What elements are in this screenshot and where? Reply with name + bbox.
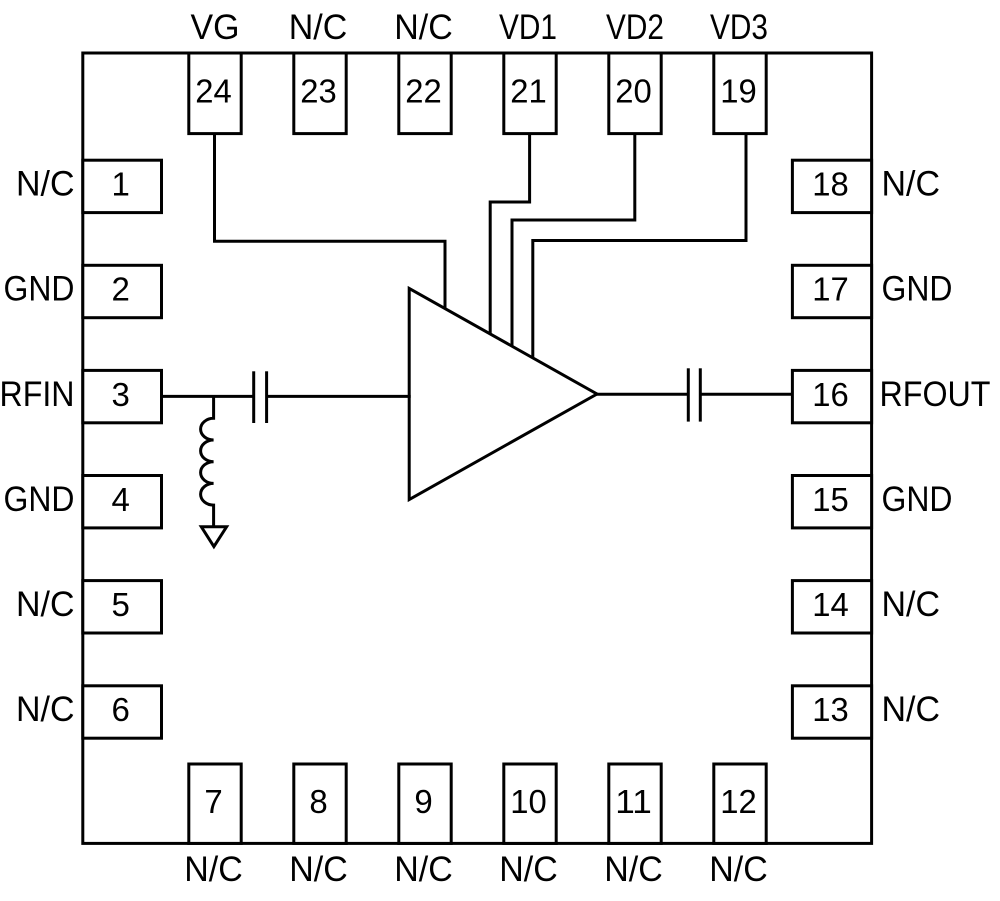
wire: amplifier output to capacitor C2 (596, 393, 688, 396)
pin 2 (83, 265, 162, 317)
svg-text:N/C: N/C (16, 165, 75, 204)
svg-text:GND: GND (4, 270, 75, 309)
svg-text:3: 3 (112, 376, 130, 413)
wire: C1 to amplifier input (267, 395, 411, 398)
pin 4 (83, 476, 162, 528)
pin 20 (609, 53, 661, 134)
svg-text:N/C: N/C (394, 8, 453, 47)
pin 5 (83, 581, 162, 633)
svg-text:10: 10 (510, 783, 547, 820)
svg-text:22: 22 (405, 73, 442, 110)
pin 23 (294, 53, 346, 134)
wire: RFIN pin 3 to capacitor C1 (162, 395, 254, 398)
svg-text:VG: VG (191, 8, 240, 47)
svg-text:15: 15 (812, 481, 849, 518)
svg-text:N/C: N/C (289, 8, 348, 47)
svg-text:9: 9 (414, 783, 432, 820)
svg-text:24: 24 (195, 73, 232, 110)
pin 9 (399, 764, 451, 843)
svg-text:6: 6 (112, 691, 130, 728)
pin 21 (504, 53, 556, 134)
pin 16 (792, 370, 871, 422)
svg-text:VD1: VD1 (499, 8, 557, 47)
svg-text:VD2: VD2 (606, 8, 664, 47)
pin 15 (792, 476, 871, 528)
svg-text:1: 1 (112, 166, 130, 203)
svg-text:N/C: N/C (499, 850, 558, 889)
svg-text:GND: GND (882, 480, 953, 519)
pin 1 (83, 160, 162, 212)
svg-text:11: 11 (615, 783, 652, 820)
svg-text:23: 23 (300, 73, 337, 110)
svg-text:N/C: N/C (16, 690, 75, 729)
pin 24 (189, 53, 241, 134)
wire: C2 to RFOUT pin 16 (700, 393, 792, 396)
ground (arrow symbol below L1) (201, 527, 226, 547)
pin 19 (714, 53, 766, 134)
capacitor C1 (input DC block) (254, 371, 267, 423)
pin 7 (189, 764, 241, 843)
svg-text:5: 5 (112, 586, 130, 623)
svg-text:N/C: N/C (882, 690, 941, 729)
svg-text:13: 13 (812, 691, 849, 728)
svg-text:RFOUT: RFOUT (880, 375, 991, 414)
svg-text:N/C: N/C (394, 850, 453, 889)
svg-text:18: 18 (812, 166, 849, 203)
package outline (QFN body) (83, 53, 872, 843)
svg-text:12: 12 (720, 783, 757, 820)
svg-text:N/C: N/C (604, 850, 663, 889)
pin 13 (792, 686, 871, 738)
pin 18 (792, 160, 871, 212)
svg-text:VD3: VD3 (710, 8, 768, 47)
capacitor C2 (output DC block) (688, 368, 700, 421)
svg-text:2: 2 (112, 271, 130, 308)
svg-text:N/C: N/C (882, 585, 941, 624)
svg-text:N/C: N/C (882, 165, 941, 204)
svg-text:N/C: N/C (16, 585, 75, 624)
svg-text:16: 16 (812, 376, 849, 413)
svg-text:RFIN: RFIN (0, 375, 75, 414)
wire: VD2 pin 20 to amplifier (512, 134, 635, 348)
pin 8 (294, 764, 346, 843)
svg-text:21: 21 (510, 73, 547, 110)
pin 6 (83, 686, 162, 738)
svg-text:GND: GND (882, 270, 953, 309)
svg-text:7: 7 (204, 783, 222, 820)
svg-text:8: 8 (309, 783, 327, 820)
pin 3 (83, 370, 162, 422)
wire: VD3 pin 19 to amplifier (533, 134, 746, 359)
pin 11 (609, 764, 661, 843)
pin 17 (792, 265, 871, 317)
pin 12 (714, 764, 766, 843)
svg-text:14: 14 (812, 586, 849, 623)
pin 22 (399, 53, 451, 134)
wire: VD1 pin 21 to amplifier (490, 134, 529, 335)
pin 10 (504, 764, 556, 843)
svg-text:17: 17 (812, 271, 849, 308)
svg-text:N/C: N/C (709, 850, 768, 889)
svg-text:4: 4 (112, 481, 130, 518)
svg-text:GND: GND (4, 480, 75, 519)
pin 14 (792, 581, 871, 633)
svg-text:19: 19 (720, 73, 757, 110)
inductor L1 (shunt choke at RFIN node) (201, 396, 214, 526)
svg-text:N/C: N/C (289, 850, 348, 889)
svg-text:N/C: N/C (184, 850, 243, 889)
svg-text:20: 20 (615, 73, 652, 110)
wire: VG pin 24 to amplifier input network (215, 134, 446, 310)
op-amp amplifier triangle U1 (409, 288, 597, 499)
